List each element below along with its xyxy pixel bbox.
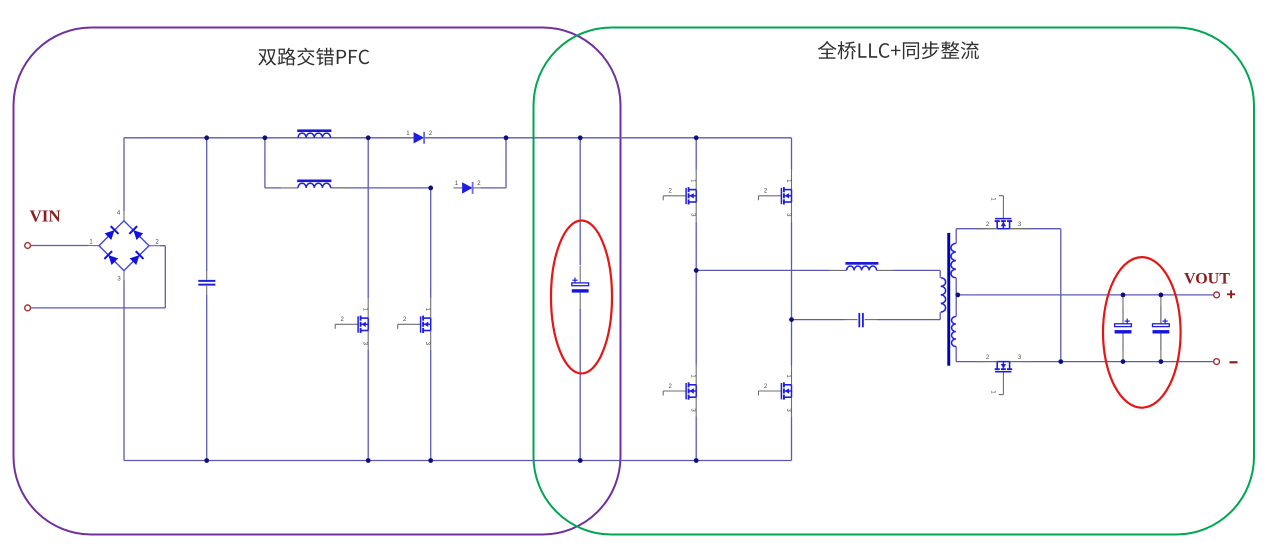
svg-text:1: 1 [690,179,696,183]
svg-text:3: 3 [1018,355,1022,361]
junction dots bottom rail [204,458,209,463]
svg-text:VIN: VIN [30,207,62,226]
transistor Q1 (PFC switch 1) [335,298,368,350]
wire: output capacitor C3 branch [1122,295,1124,306]
wire: full-bridge right leg [791,138,793,170]
transformer T1 primary winding [941,278,946,312]
svg-text:1: 1 [455,181,459,187]
red highlight ellipse around output capacitors [1103,257,1181,408]
wire: VIN line to bridge pin 1 [30,245,88,247]
section box: full-bridge LLC + sync rect (green rounded rectangle) [534,28,1255,535]
wire: D2 output to top rail node [481,187,506,189]
bridge diode bottom-left (from - to pin1) [104,251,118,265]
diode D1 (PFC boost diode 1) [405,137,414,139]
svg-text:1: 1 [785,179,791,183]
transformer T1 core bar [947,233,950,366]
bridge rectifier BR1 diamond [99,221,149,271]
junction dot bridge midpoint A [694,268,699,273]
wire: resonant inductor to transformer primary top [893,269,940,271]
polarity mark - [1230,361,1238,363]
polarity mark + [1227,293,1235,295]
wire: sync FET Q7 to right drop [1011,228,1022,230]
section box: dual interleaved PFC (purple rounded rectangle) [14,28,621,535]
wire: bridge midpoint B to resonant capacitor [792,319,846,321]
inductor L1 (PFC choke 1) [297,129,331,132]
wire: top DC rail [124,137,792,139]
junction dots output caps [1121,293,1126,298]
diode D2 (PFC boost diode 2) [453,187,462,189]
svg-text:3: 3 [424,342,430,346]
bridge diode top-left (anode pin1 side, cathode to +) [104,226,118,240]
svg-text:VOUT: VOUT [1184,271,1230,288]
wire: secondary top to sync FET Q7 [955,229,957,244]
svg-text:1: 1 [424,308,430,312]
transformer T1 secondary upper winding [951,243,956,277]
capacitor C4 (output electrolytic 2) [1160,306,1162,323]
svg-text:1: 1 [990,390,996,394]
transistor Q4 (bridge upper-right) [759,170,792,222]
transistor Q3 (bridge upper-left) [663,170,696,222]
wire: output capacitor C4 branch [1160,295,1162,324]
wire: capacitor C1 branch vertical [206,138,208,271]
transistor Q2 (PFC switch 2) [398,298,431,350]
red highlight ellipse around bulk capacitor [551,221,612,374]
wire: center tap to VOUT+ rail [958,294,1214,296]
svg-text:3: 3 [690,408,696,412]
wire: left vertical from top rail to bridge pin 4 [123,138,125,211]
svg-text:1: 1 [89,240,93,246]
section title: 全桥LLC+同步整流 [818,41,979,59]
wire: L1 row on top rail (gray pin stubs) [282,137,298,139]
svg-text:2: 2 [669,189,673,195]
wire: negative VOUT- rail [1061,361,1214,363]
svg-text:1: 1 [990,197,996,201]
wire: Q1 drain-source vertical branch [367,138,369,298]
svg-text:2: 2 [155,240,159,246]
wire: inductor branch split vertical [264,138,266,188]
wire: VIN lower line to bridge pin 2 [30,307,165,309]
inductor Lr (resonant inductor) [845,262,878,265]
transistor Q5 (bridge lower-left) [663,365,696,417]
wire: full-bridge left leg [695,138,697,170]
svg-text:1: 1 [362,308,368,312]
transformer T1 secondary lower winding [952,317,956,347]
wire: Q2 drain-source vertical branch [430,188,432,298]
svg-text:1: 1 [406,131,410,137]
svg-text:3: 3 [690,213,696,217]
junction dot bridge midpoint B [789,317,794,322]
svg-text:3: 3 [362,342,368,346]
svg-text:2: 2 [669,384,673,390]
svg-text:1: 1 [785,374,791,378]
svg-text:2: 2 [764,384,768,390]
terminal VIN neutral [25,305,31,311]
capacitor C2 (bulk electrolytic) [579,266,581,283]
svg-text:2: 2 [986,222,990,228]
svg-text:4: 4 [117,211,121,217]
wire: L2 row to node of Q2 [331,187,431,189]
transistor Q8 (sync rectifier bottom, gate down) [977,362,1029,395]
section title: 双路交错PFC [258,48,369,66]
svg-text:3: 3 [785,213,791,217]
capacitor C1 (input film cap) [206,271,208,280]
capacitor C3 (output electrolytic 1) [1122,306,1124,323]
transistor Q6 (bridge lower-right) [759,365,792,417]
transistor Q7 (sync rectifier top, gate up) [977,196,1029,229]
terminal VOUT minus [1214,359,1220,365]
wire: bottom return rail [124,460,792,462]
wire: sync FET Q8 to negative rail node [1011,361,1022,363]
wire: transformer secondary center tap link [955,278,957,317]
svg-text:2: 2 [341,317,345,323]
bridge diode top-right (cathode to +) [129,226,143,240]
terminal VOUT plus [1214,292,1220,298]
svg-text:2: 2 [429,131,433,137]
svg-text:3: 3 [1018,222,1022,228]
svg-text:2: 2 [477,181,481,187]
wire: bridge midpoint A to resonant inductor [696,269,829,271]
junction dots top rail [204,135,209,140]
wire: secondary bottom to sync FET Q8 [955,346,957,361]
svg-text:1: 1 [690,374,696,378]
svg-text:2: 2 [403,317,407,323]
svg-text:2: 2 [986,355,990,361]
junction dot sync rect negative node [1058,359,1063,364]
junction dot transformer center tap [955,293,960,298]
svg-text:3: 3 [117,277,121,283]
terminal VIN line [25,243,31,249]
svg-text:3: 3 [785,408,791,412]
svg-text:2: 2 [764,189,768,195]
wire: bridge pin 3 down to bottom rail [123,280,125,461]
junction dot L2/Q2 node [428,186,433,191]
bridge diode bottom-right (from - to pin2) [129,251,143,265]
capacitor Cr (resonant capacitor) [858,313,860,327]
wire: vertical drop from Q7 to negative rail [1060,229,1062,362]
inductor L2 (PFC choke 2) [297,180,331,183]
wire: bulk capacitor C2 branch vertical [579,138,581,265]
wire: resonant capacitor to transformer primary bottom [877,319,940,321]
